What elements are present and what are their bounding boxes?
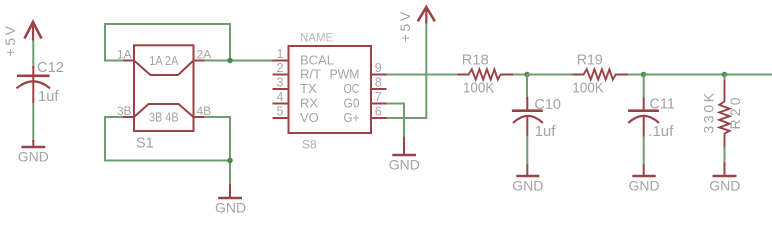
ground [628, 165, 659, 194]
wire [527, 74, 572, 76]
svg-text:G0: G0 [344, 95, 360, 110]
svg-text:3B 4B: 3B 4B [149, 110, 179, 125]
wire [204, 60, 273, 62]
svg-text:.1uf: .1uf [648, 123, 674, 140]
svg-text:R18: R18 [462, 52, 489, 69]
svg-text:7: 7 [375, 90, 382, 104]
svg-text:C11: C11 [649, 95, 675, 112]
svg-text:4: 4 [277, 90, 284, 104]
svg-text:3: 3 [277, 76, 284, 90]
svg-text:VO: VO [300, 110, 319, 125]
capacitor C12 [17, 59, 65, 105]
resistor R20 [701, 80, 743, 148]
svg-text:GND: GND [628, 177, 659, 193]
svg-text:4B: 4B [197, 104, 212, 118]
svg-text:NAME: NAME [300, 33, 334, 45]
wire [32, 103, 34, 142]
svg-text:9: 9 [375, 61, 382, 75]
svg-text:C10: C10 [534, 96, 561, 113]
svg-text:GND: GND [18, 149, 49, 165]
svg-text:OC: OC [344, 81, 360, 96]
svg-text:+5V: +5V [2, 23, 18, 56]
svg-text:+5V: +5V [397, 9, 413, 42]
svg-text:C12: C12 [37, 59, 64, 76]
wire [643, 75, 645, 100]
svg-text:R20: R20 [727, 94, 743, 129]
junction [722, 72, 728, 78]
junction [641, 72, 647, 78]
pin 7 [371, 90, 387, 104]
svg-text:1A: 1A [117, 48, 132, 62]
svg-text:BCAL: BCAL [300, 52, 334, 67]
svg-text:GND: GND [512, 177, 543, 193]
svg-text:G+: G+ [344, 110, 360, 125]
resistor R18 [457, 52, 513, 97]
svg-text:1: 1 [277, 47, 284, 61]
wire [643, 136, 645, 166]
wire [32, 40, 34, 68]
power +5V P1 [2, 22, 42, 57]
svg-text:RX: RX [300, 95, 318, 110]
svg-text:1uf: 1uf [535, 123, 556, 140]
wire [725, 74, 772, 76]
svg-text:5: 5 [277, 105, 284, 119]
IC S8 [273, 33, 387, 152]
wire [387, 74, 458, 76]
svg-text:8: 8 [375, 76, 382, 90]
ground [18, 140, 49, 165]
switch S1 [117, 45, 211, 151]
wire [628, 74, 643, 76]
wire [724, 147, 726, 164]
svg-text:GND: GND [215, 200, 246, 216]
wire [513, 74, 527, 76]
svg-text:2: 2 [277, 61, 284, 75]
wire [526, 75, 528, 100]
resistor R19 [572, 52, 628, 97]
pin 4 [273, 90, 289, 104]
svg-text:1uf: 1uf [38, 88, 59, 105]
pin 6 [371, 105, 387, 119]
wire [105, 117, 230, 161]
svg-text:TX: TX [300, 81, 317, 96]
capacitor C10 [512, 96, 561, 140]
svg-text:100K: 100K [463, 80, 495, 97]
pin 2 [273, 61, 289, 75]
wire [526, 136, 528, 166]
svg-text:GND: GND [709, 177, 740, 193]
svg-text:1A 2A: 1A 2A [149, 53, 178, 68]
svg-text:R/T: R/T [300, 66, 321, 81]
pin 8 [371, 76, 387, 90]
junction [227, 58, 233, 64]
svg-text:330K: 330K [701, 90, 717, 133]
pin 5 [273, 105, 289, 119]
ground [389, 137, 420, 173]
svg-text:PWM: PWM [330, 66, 360, 81]
svg-text:3B: 3B [117, 104, 132, 118]
wire [644, 74, 725, 76]
svg-text:S1: S1 [136, 136, 154, 152]
capacitor C11 [628, 95, 675, 140]
wire [387, 22, 427, 118]
svg-text:R19: R19 [577, 52, 603, 69]
pin 1 [273, 47, 289, 61]
junction [524, 72, 530, 78]
power +5V P2 [397, 7, 435, 42]
svg-text:100K: 100K [572, 80, 604, 97]
wire [724, 75, 726, 83]
ground [215, 184, 246, 216]
pin 3 [273, 76, 289, 90]
svg-text:2A: 2A [197, 48, 212, 62]
svg-text:S8: S8 [302, 138, 317, 152]
svg-text:GND: GND [389, 157, 420, 173]
wire [387, 104, 405, 139]
ground [512, 165, 543, 194]
pin 9 [371, 61, 387, 75]
wire [105, 24, 230, 61]
svg-text:6: 6 [375, 105, 382, 119]
ground [709, 163, 740, 194]
junction [227, 158, 233, 164]
wire [204, 117, 230, 185]
